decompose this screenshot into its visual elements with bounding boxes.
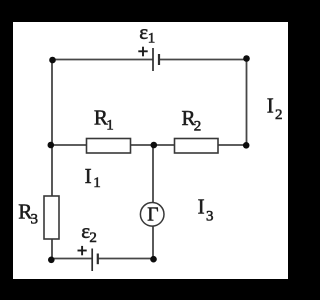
node C middle-left junction bbox=[48, 142, 55, 149]
resistor R3 bbox=[44, 196, 59, 239]
battery E1 positive plate bbox=[152, 48, 154, 71]
plus sign of E1 bbox=[138, 47, 147, 57]
svg-text:2: 2 bbox=[275, 107, 283, 123]
battery E2 positive plate bbox=[91, 249, 93, 272]
svg-text:1: 1 bbox=[106, 118, 114, 134]
svg-text:I: I bbox=[198, 195, 205, 219]
resistor R1 bbox=[87, 139, 131, 154]
svg-text:1: 1 bbox=[93, 175, 101, 191]
battery E1 negative plate bbox=[158, 54, 160, 65]
node A top-left junction bbox=[49, 57, 56, 64]
wire right branch (node B to node E) bbox=[246, 58, 248, 145]
wire bottom left (node F to battery E2) bbox=[51, 258, 92, 260]
wire bottom right (battery E2 to node G) bbox=[98, 258, 154, 260]
wire middle branch (node C to node E through R1 R2) bbox=[51, 144, 247, 146]
resistor R2 bbox=[175, 139, 219, 154]
svg-text:Г: Г bbox=[147, 205, 158, 226]
wire galvanometer branch (node D to node G) bbox=[152, 145, 154, 259]
galvanometer G bbox=[140, 203, 164, 227]
svg-text:2: 2 bbox=[194, 118, 202, 134]
node E middle-right junction bbox=[243, 142, 250, 149]
svg-text:I: I bbox=[85, 164, 92, 188]
wire left branch (node A to node F through R3) bbox=[51, 60, 53, 261]
battery E2 negative plate bbox=[97, 254, 99, 265]
svg-text:3: 3 bbox=[206, 209, 214, 225]
node G bottom junction bbox=[150, 256, 157, 263]
node D center junction bbox=[151, 142, 158, 149]
wire top right (battery E1 to node B) bbox=[160, 59, 247, 61]
node B top-right junction bbox=[243, 55, 250, 62]
wire top left (node A to battery E1) bbox=[53, 59, 153, 61]
svg-text:3: 3 bbox=[31, 211, 39, 227]
node F bottom-left junction bbox=[48, 257, 55, 264]
svg-text:2: 2 bbox=[89, 230, 97, 246]
svg-text:I: I bbox=[267, 94, 274, 118]
plus sign of E2 bbox=[78, 246, 87, 255]
svg-text:1: 1 bbox=[148, 31, 156, 47]
